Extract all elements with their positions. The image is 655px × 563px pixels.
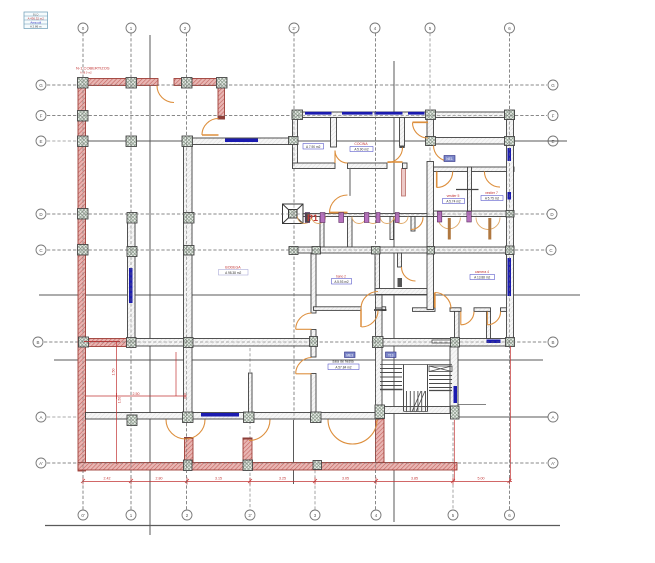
door sala double lower (362, 311, 379, 328)
post 3 (339, 213, 344, 223)
dim tick slashes (81, 479, 512, 483)
wall building top exterior (292, 112, 514, 118)
column top 2' (292, 110, 303, 120)
bubble 2' bottom (245, 510, 255, 520)
scallop arc 7 (438, 218, 460, 229)
door bodega east 1 (296, 313, 312, 329)
bubble F left (36, 111, 46, 121)
wall below C x314 seg2 (311, 330, 316, 358)
bubble 0 top (78, 23, 88, 33)
post 4 (364, 213, 369, 223)
svg-text:2.50: 2.50 (133, 392, 140, 396)
svg-text:2.42: 2.42 (104, 477, 111, 481)
svg-text:vestier 7: vestier 7 (485, 191, 498, 195)
stair top edge (380, 364, 452, 366)
door leaf bath2 (488, 218, 491, 240)
wall stair east x454 (450, 346, 458, 413)
section line vertical 150 (149, 35, 151, 535)
door leaf bath1 (448, 218, 451, 240)
grid bubbles (33, 23, 558, 520)
svg-text:3.25: 3.25 (279, 477, 286, 481)
label bodega (219, 266, 249, 276)
dim interior vertical x116 (116, 342, 118, 464)
door vestier5 (437, 172, 453, 188)
wall x131 D to B (128, 214, 136, 346)
label group (24, 12, 503, 370)
window east wall 1 (508, 148, 512, 161)
window B wall (487, 340, 501, 344)
door corridor mid (388, 148, 403, 163)
wall x378 stair west (376, 347, 383, 413)
wall below D x391 (390, 217, 394, 240)
dim interior horizontal y396 (86, 395, 188, 397)
door bodega east 2 (296, 358, 312, 374)
scallop arc 1 (298, 217, 312, 224)
wall small rooms y309 seg2 (474, 308, 491, 312)
svg-text:A: A (39, 415, 42, 420)
stair east landing edge (429, 390, 452, 392)
dim drop vertical right1 (453, 420, 455, 481)
svg-text:0': 0' (81, 513, 85, 518)
door group (orange arcs) (157, 86, 501, 445)
overlay row B (44, 341, 548, 343)
column D6 (506, 211, 514, 218)
stair east flight treads (429, 376, 452, 388)
column D1 (127, 213, 137, 224)
scallop arc 6 (394, 217, 408, 224)
stair east box diagonals (429, 366, 452, 372)
wall y165 corridor east stub (403, 163, 408, 169)
column C2 (184, 246, 195, 256)
bubble 4 top (370, 23, 380, 33)
svg-text:3.85: 3.85 (411, 477, 418, 481)
column top 6 (505, 110, 515, 120)
column C1 (127, 247, 137, 257)
grid line 2 vertical (186, 33, 188, 510)
bubble 1 bottom (126, 510, 136, 520)
door porch D big (330, 195, 348, 213)
wall red porch stub 2' (243, 438, 252, 463)
wall below D x413 (411, 217, 415, 232)
column C0 (78, 245, 89, 256)
window top wall 1 (305, 112, 332, 115)
bubble 1 top (126, 23, 136, 33)
bubble G left (36, 80, 46, 90)
svg-text:E: E (39, 139, 42, 144)
bubble 2' top (289, 23, 299, 33)
section line mid horizontal 360 (54, 359, 543, 361)
wall row E right segment (427, 138, 514, 145)
wall below C x314 to A (311, 253, 316, 313)
door corridor east arc (413, 123, 429, 139)
bubble 2 top (180, 23, 190, 33)
column E0 (78, 136, 89, 147)
column D0 (78, 209, 89, 220)
scallop arc 5 (380, 217, 394, 224)
svg-text:F: F (552, 113, 555, 118)
grid line 5 vertical bottom (452, 422, 454, 510)
column G0 (78, 78, 89, 89)
window stair east wall (454, 386, 458, 403)
door hall east (434, 146, 450, 162)
scallop arc 2 (312, 217, 326, 224)
door small room 1 (461, 312, 474, 325)
overlay grid 6 (509, 33, 511, 510)
wall x401 end cap (399, 146, 404, 148)
label legend table top-left (24, 12, 48, 29)
wall row B gray right (376, 339, 515, 347)
column B6 (506, 338, 515, 347)
scallop arc 3 (352, 217, 366, 224)
door camera leaf (434, 293, 436, 308)
bubble E right (548, 136, 558, 146)
svg-text:2': 2' (292, 26, 296, 31)
bubble 3 bottom (310, 510, 320, 520)
bubble 6 top (505, 23, 515, 33)
column B3 (310, 337, 318, 347)
post 1 (305, 213, 310, 223)
svg-text:A 57.84 m2: A 57.84 m2 (335, 365, 351, 369)
stair cut diagonals (412, 391, 425, 412)
grid row C horizontal (47, 249, 547, 251)
svg-text:A 5.74 m2: A 5.74 m2 (446, 200, 461, 204)
grid row D horizontal (47, 213, 547, 215)
wall row A stair block (380, 407, 458, 414)
shelf line vestier (456, 189, 479, 191)
door D x413 (411, 217, 423, 229)
wall x378 hall west upper (376, 295, 383, 309)
svg-text:1.50: 1.50 (118, 397, 122, 403)
wall row C (289, 247, 514, 253)
overlay grid 1 (130, 33, 132, 510)
label T13 box (386, 352, 397, 358)
wall top red west segment (78, 79, 158, 86)
wall row E left segment (183, 138, 297, 145)
svg-text:P1: P1 (307, 213, 318, 223)
wall vestier partition (468, 167, 472, 217)
column C6 (506, 246, 515, 255)
scallop arcs along D porch wall (298, 217, 501, 240)
column B4 (373, 337, 384, 348)
label NE1 box (444, 156, 455, 162)
column C3 (312, 247, 321, 255)
stub 2 cap (184, 437, 194, 439)
wall small rooms y309 seg3 (501, 308, 507, 312)
label vestier5 (443, 194, 465, 204)
wall bottom red exterior (78, 463, 457, 471)
svg-text:G: G (39, 83, 43, 88)
door below C x401 (402, 267, 416, 281)
section line E horizontal (88, 140, 567, 142)
scallop arc 8 (476, 218, 500, 230)
stair well east rail (427, 365, 429, 412)
svg-text:T13: T13 (388, 353, 394, 357)
dim drop vertical right2 (510, 346, 512, 481)
column B1 (127, 338, 137, 348)
purple door posts (305, 212, 471, 223)
svg-text:vestier 5: vestier 5 (447, 194, 460, 198)
section line A horizontal (459, 416, 548, 418)
wall building west upper (293, 118, 298, 169)
svg-text:B: B (36, 340, 39, 345)
wall x430 D to C (427, 217, 434, 248)
dimension group (red) (81, 342, 512, 485)
svg-text:3.05: 3.05 (342, 477, 349, 481)
stair landing line (452, 404, 486, 406)
grid row E horizontal dashed stub (47, 140, 88, 142)
svg-text:A 7.90 m2: A 7.90 m2 (306, 145, 321, 149)
dim B red overlay (84, 341, 120, 343)
door porch A double 1b (186, 420, 206, 440)
gray wall group (86, 112, 515, 419)
wall row D porch line (298, 214, 434, 217)
label vestier7 (481, 191, 503, 201)
section line vertical 394 (393, 61, 395, 522)
column B x456 (451, 338, 460, 348)
dim interior vertical x176 (175, 352, 177, 396)
wall below C x399 (398, 253, 402, 267)
column E6 (505, 137, 515, 146)
overlay row A' (47, 462, 547, 464)
svg-text:ME3: ME3 (346, 353, 353, 357)
bubble 4 bottom (371, 510, 381, 520)
bubble 2 bottom (182, 510, 192, 520)
wall y291 horizontal (375, 289, 429, 295)
wall row B gray left (135, 339, 315, 347)
wall x430 C down (427, 253, 434, 310)
column A3 (311, 412, 322, 423)
dim ticks bottom (83, 478, 510, 485)
wall building east exterior (507, 118, 514, 347)
grid line 5 vertical top (429, 33, 431, 216)
bubble 0 bottom (78, 510, 88, 520)
grid row G horizontal (47, 84, 547, 86)
wall below C x377 (375, 253, 380, 291)
window top wall 4 (408, 112, 425, 115)
column A2' (244, 412, 255, 423)
bottom border line (45, 525, 560, 527)
section line vertical 294 lower (293, 420, 295, 484)
wall red vertical stub at 2 (218, 86, 225, 117)
stub 2' cap (243, 438, 253, 440)
grid group (44, 33, 548, 510)
window east wall 2 (508, 192, 512, 200)
svg-text:A 2.86 m: A 2.86 m (30, 24, 42, 28)
bubble E left (36, 136, 46, 146)
overlay row F (47, 115, 547, 117)
grid overlay lines (drawn above walls, translucent) (44, 33, 548, 510)
svg-text:sala de fiesta: sala de fiesta (332, 360, 353, 364)
window top wall 3 (375, 112, 403, 115)
door main entrance top (157, 86, 174, 103)
bubble F right (548, 111, 558, 121)
window east wall 3 (508, 258, 512, 296)
svg-text:NE1: NE1 (446, 157, 453, 161)
bubble C right (546, 245, 556, 255)
wall vertical x333 kitchen (331, 118, 337, 148)
window group (blue) (129, 112, 511, 417)
bubble G right (548, 80, 558, 90)
wall pink partition below kitchen (402, 169, 406, 197)
door porch A double 1a (166, 420, 186, 440)
wall red porch stub 4 (376, 419, 385, 463)
wall small rooms y309 seg1b (450, 308, 461, 312)
wall stub x399 lower (398, 278, 403, 287)
wall below D x349 (348, 217, 353, 248)
svg-text:A 5.75 m2: A 5.75 m2 (485, 197, 500, 201)
label room A7.90 (303, 144, 324, 150)
grid line 6 vertical (509, 33, 511, 510)
dim interior ticks (117, 393, 186, 399)
column B0 (79, 337, 89, 347)
svg-text:A 98.38 m2: A 98.38 m2 (225, 271, 241, 275)
beam y341 left of camera (432, 340, 454, 343)
svg-text:1.50: 1.50 (112, 369, 116, 376)
wall x187 E to A (184, 141, 193, 417)
bubble D right (547, 209, 557, 219)
wall below D x321 (320, 217, 324, 248)
grid row A horizontal dashed stub (47, 416, 125, 418)
wall vestier top (434, 167, 515, 172)
grid line 2' vertical bottom (249, 348, 251, 510)
window top wall 2 (342, 112, 373, 115)
overlay row C (47, 249, 547, 251)
wall vertical x430 upper (427, 118, 434, 146)
column C5 (427, 247, 435, 255)
window A wall (201, 413, 239, 417)
grid row A' horizontal (47, 462, 547, 464)
column C2' (289, 247, 298, 255)
dim text group (104, 369, 485, 481)
label cocina (350, 142, 373, 152)
dim line bottom main (83, 481, 512, 483)
svg-text:A': A' (39, 461, 43, 466)
column G2b (217, 78, 228, 89)
column bottom 3 (313, 461, 322, 470)
svg-text:A 5.90 m2: A 5.90 m2 (354, 148, 369, 152)
svg-text:A: A (551, 415, 554, 420)
column bottom 2' (243, 460, 253, 471)
stair well west rail (403, 365, 405, 412)
column E2 (182, 136, 193, 147)
label camera (470, 270, 495, 280)
svg-text:COCINA: COCINA (354, 142, 368, 146)
svg-text:G: G (551, 83, 555, 88)
column A1 (127, 415, 137, 426)
svg-text:BODEGA: BODEGA (225, 266, 241, 270)
column E2' (289, 137, 299, 145)
wall row D right segment (434, 211, 515, 217)
svg-text:N-1 COBERTIZOS: N-1 COBERTIZOS (76, 66, 110, 71)
wall y165 corridor mid segment (348, 163, 388, 169)
svg-text:3.15: 3.15 (215, 477, 222, 481)
column G2 (182, 78, 193, 89)
wall hall beam y308 west (314, 307, 362, 311)
overlay row G (47, 84, 547, 86)
stair west flight treads (380, 369, 402, 386)
wall partition x250 below B (249, 373, 253, 413)
label bano (332, 275, 352, 285)
door camera arc (435, 293, 451, 309)
door small room 2 (487, 312, 500, 325)
grid line 3 vertical bottom (314, 470, 316, 510)
column F0 (78, 111, 89, 122)
big X pillar at D 2' (283, 204, 304, 224)
column E1 (126, 136, 137, 147)
window E wall (225, 139, 258, 143)
section line mid horizontal 295 (39, 294, 580, 296)
stair bottom flight vertical treads (407, 391, 426, 412)
bubble B right (548, 337, 558, 347)
stair group (380, 365, 452, 412)
column A2 (183, 412, 194, 423)
post 6 (395, 213, 399, 223)
wall vertical x401 kitchen2 (400, 118, 405, 147)
bubble A' right (548, 458, 558, 468)
bubble A' left (36, 458, 46, 468)
wall left exterior red (78, 79, 86, 472)
bubble labels (36, 26, 555, 518)
bubble C left (36, 245, 46, 255)
column B2 (184, 338, 194, 348)
wall x378 hall west mid (376, 308, 383, 347)
bubble 6 bottom (505, 510, 515, 520)
post 8 (467, 212, 472, 223)
door porch A single (249, 420, 270, 441)
svg-text:5.00: 5.00 (478, 477, 485, 481)
door corridor east leaf (413, 121, 429, 123)
stair west landing edge (380, 389, 403, 391)
label sala de fiesta (328, 360, 359, 370)
svg-text:bano 2: bano 2 (336, 275, 346, 279)
svg-text:A 38.0 m2: A 38.0 m2 (80, 71, 92, 75)
post 5 (376, 213, 380, 223)
grid row B horizontal (44, 341, 548, 343)
window wall x131 (129, 268, 133, 303)
wall red porch stub 2 (185, 438, 194, 463)
column group (78, 78, 515, 471)
svg-text:A': A' (551, 461, 555, 466)
door vestier7 (484, 172, 500, 188)
bubble A right (548, 412, 558, 422)
door kitchen corridor (335, 151, 348, 164)
wall hall beam y308 east (378, 307, 386, 311)
overlay grid 0 (82, 33, 84, 510)
column top 5 (426, 110, 436, 120)
overlay grid 2 (186, 33, 188, 510)
wall row B red segment (86, 339, 128, 347)
column bottom 2 (184, 460, 193, 471)
svg-text:A 13.88 m2: A 13.88 m2 (474, 276, 490, 280)
wall x430 E to D (427, 162, 434, 217)
overlay grid 2' (293, 33, 295, 420)
post 7 (437, 212, 442, 223)
wall small room partition x488 (487, 311, 491, 338)
column A4 (375, 405, 385, 419)
red wall group (78, 79, 457, 472)
column C4 (372, 247, 381, 255)
column G1 (126, 78, 137, 89)
section lines (39, 35, 580, 535)
wall small room west x456 (455, 311, 460, 338)
overlay row D (47, 213, 547, 215)
bubble D left (36, 209, 46, 219)
wall red stub end cap (218, 116, 226, 120)
column E5 (426, 137, 436, 146)
label ME3 box (345, 352, 356, 358)
wall below C x314 seg3 (311, 374, 316, 420)
svg-text:F: F (40, 113, 43, 118)
